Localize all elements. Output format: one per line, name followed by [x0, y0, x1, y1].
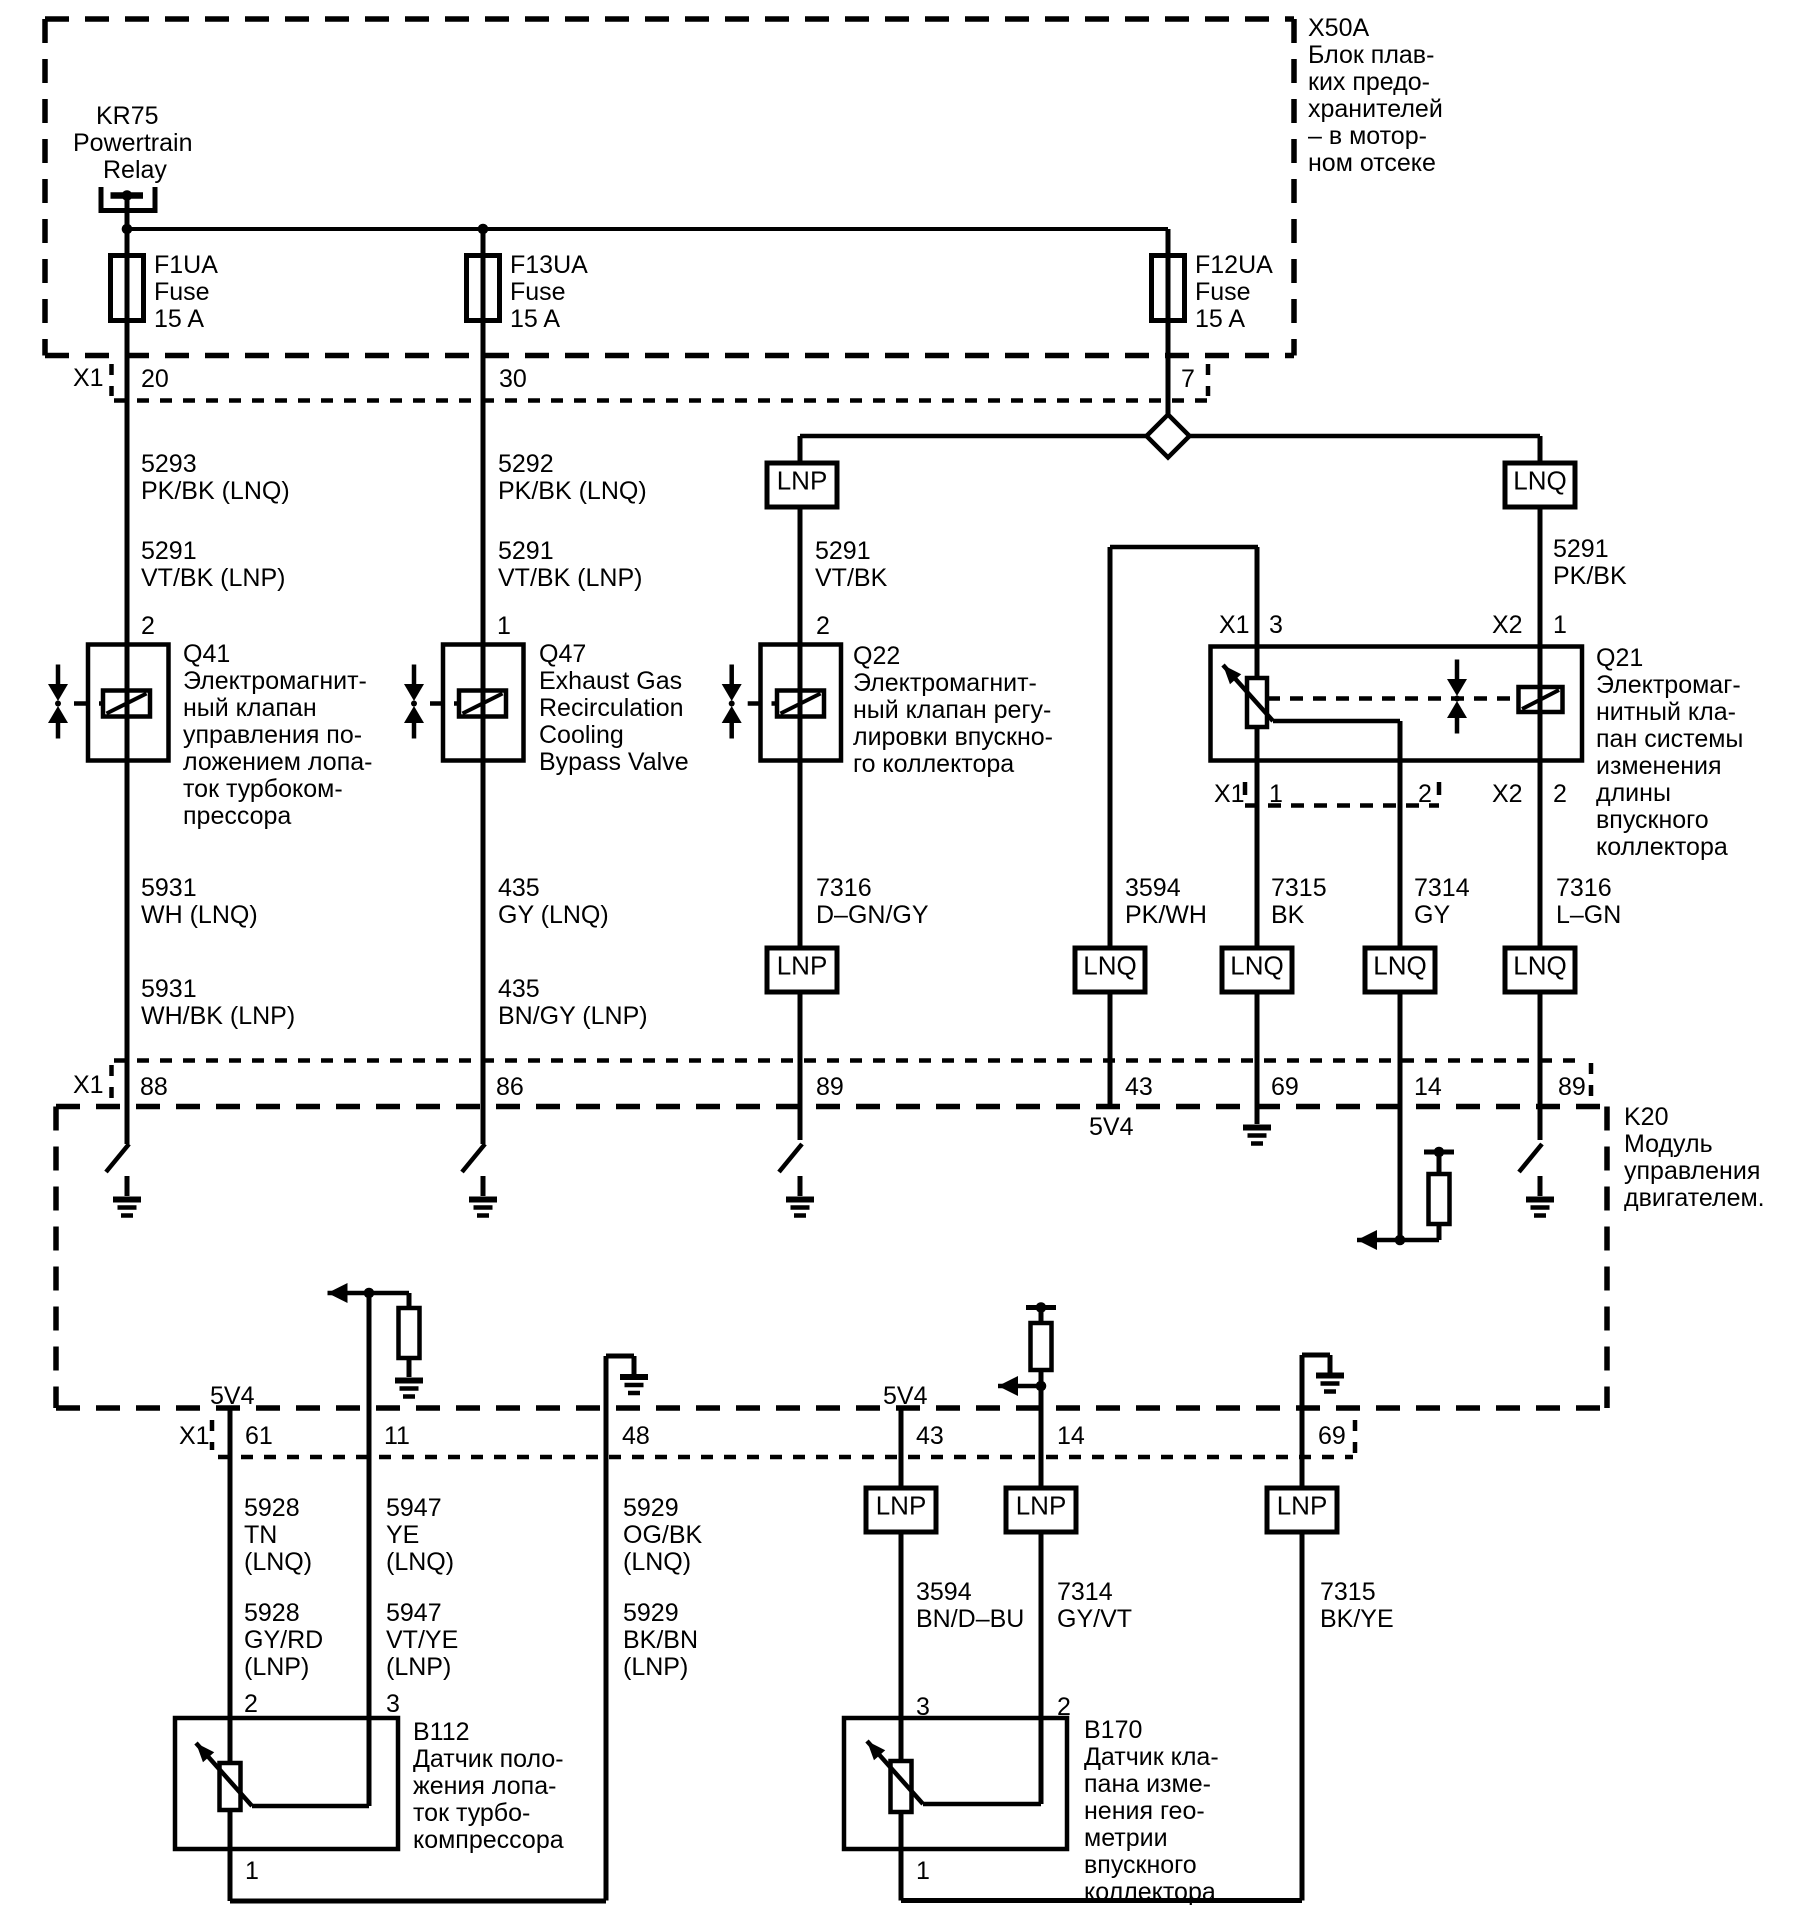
svg-text:X2: X2 — [1492, 611, 1523, 639]
svg-text:69: 69 — [1318, 1422, 1346, 1450]
svg-text:5293: 5293 — [141, 450, 197, 478]
svg-text:GY (LNQ): GY (LNQ) — [498, 901, 609, 929]
svg-text:5931: 5931 — [141, 874, 197, 902]
svg-text:PK/BK (LNQ): PK/BK (LNQ) — [498, 477, 647, 505]
svg-text:Q47: Q47 — [539, 640, 586, 668]
svg-text:5928: 5928 — [244, 1599, 300, 1627]
svg-text:длины: длины — [1596, 779, 1671, 807]
svg-text:KR75: KR75 — [96, 102, 159, 130]
svg-text:изменения: изменения — [1596, 752, 1722, 780]
svg-text:15 A: 15 A — [510, 305, 560, 333]
svg-text:LNP: LNP — [777, 951, 828, 981]
svg-text:BN/D–BU: BN/D–BU — [916, 1605, 1024, 1633]
svg-text:43: 43 — [916, 1422, 944, 1450]
svg-text:LNQ: LNQ — [1513, 951, 1566, 981]
svg-text:VT/BK: VT/BK — [815, 564, 888, 592]
svg-text:5V4: 5V4 — [210, 1382, 255, 1410]
svg-text:5291: 5291 — [1553, 535, 1609, 563]
svg-text:X1: X1 — [73, 364, 104, 392]
svg-text:F1UA: F1UA — [154, 251, 218, 279]
svg-text:PK/BK (LNQ): PK/BK (LNQ) — [141, 477, 290, 505]
svg-text:VT/BK (LNP): VT/BK (LNP) — [141, 564, 285, 592]
svg-text:5291: 5291 — [498, 537, 554, 565]
svg-text:15 A: 15 A — [1195, 305, 1245, 333]
svg-text:D–GN/GY: D–GN/GY — [816, 901, 929, 929]
svg-text:5292: 5292 — [498, 450, 554, 478]
svg-text:двигателем.: двигателем. — [1624, 1184, 1765, 1212]
svg-text:7316: 7316 — [816, 874, 872, 902]
svg-text:1: 1 — [245, 1857, 259, 1885]
svg-text:F13UA: F13UA — [510, 251, 588, 279]
svg-text:5V4: 5V4 — [883, 1382, 928, 1410]
svg-text:ких предо-: ких предо- — [1308, 68, 1430, 96]
svg-text:48: 48 — [622, 1422, 650, 1450]
svg-text:Relay: Relay — [103, 156, 167, 184]
svg-text:2: 2 — [141, 612, 155, 640]
svg-text:LNP: LNP — [777, 466, 828, 496]
svg-text:1: 1 — [916, 1857, 930, 1885]
svg-text:L–GN: L–GN — [1556, 901, 1621, 929]
svg-text:VT/BK (LNP): VT/BK (LNP) — [498, 564, 642, 592]
svg-text:K20: K20 — [1624, 1103, 1668, 1131]
svg-text:3: 3 — [1269, 611, 1283, 639]
svg-text:WH/BK (LNP): WH/BK (LNP) — [141, 1002, 295, 1030]
svg-text:(LNQ): (LNQ) — [623, 1548, 691, 1576]
svg-text:метрии: метрии — [1084, 1824, 1168, 1852]
svg-text:B112: B112 — [413, 1718, 470, 1746]
svg-text:ложением лопа-: ложением лопа- — [183, 748, 372, 776]
svg-text:Блок плав-: Блок плав- — [1308, 41, 1434, 69]
svg-text:7: 7 — [1181, 365, 1195, 393]
svg-text:Датчик поло-: Датчик поло- — [413, 1745, 564, 1773]
svg-text:BK/BN: BK/BN — [623, 1626, 698, 1654]
svg-text:435: 435 — [498, 874, 540, 902]
svg-text:5V4: 5V4 — [1089, 1113, 1134, 1141]
svg-text:5947: 5947 — [386, 1599, 442, 1627]
svg-text:WH (LNQ): WH (LNQ) — [141, 901, 258, 929]
svg-text:7314: 7314 — [1057, 1578, 1113, 1606]
svg-text:LNQ: LNQ — [1083, 951, 1136, 981]
svg-text:LNP: LNP — [1016, 1491, 1067, 1521]
svg-text:прессора: прессора — [183, 802, 291, 830]
svg-text:BK/YE: BK/YE — [1320, 1605, 1394, 1633]
svg-text:1: 1 — [1553, 611, 1567, 639]
svg-text:5929: 5929 — [623, 1599, 679, 1627]
svg-text:LNQ: LNQ — [1513, 466, 1566, 496]
svg-text:жения лопа-: жения лопа- — [413, 1772, 556, 1800]
svg-text:ток турбо-: ток турбо- — [413, 1799, 530, 1827]
svg-text:2: 2 — [1553, 780, 1567, 808]
svg-text:Датчик кла-: Датчик кла- — [1084, 1743, 1219, 1771]
svg-text:Q21: Q21 — [1596, 644, 1643, 672]
svg-text:LNQ: LNQ — [1230, 951, 1283, 981]
svg-text:61: 61 — [245, 1422, 273, 1450]
svg-text:X50A: X50A — [1308, 14, 1369, 42]
svg-text:X1: X1 — [1219, 611, 1250, 639]
svg-text:20: 20 — [141, 365, 169, 393]
svg-text:7315: 7315 — [1320, 1578, 1376, 1606]
svg-text:1: 1 — [497, 612, 511, 640]
svg-text:X2: X2 — [1492, 780, 1523, 808]
svg-text:2: 2 — [244, 1690, 258, 1718]
svg-text:TN: TN — [244, 1521, 277, 1549]
svg-text:OG/BK: OG/BK — [623, 1521, 703, 1549]
svg-text:5291: 5291 — [815, 537, 871, 565]
svg-text:компрессора: компрессора — [413, 1826, 564, 1854]
svg-text:лировки впускно-: лировки впускно- — [853, 723, 1053, 751]
svg-text:2: 2 — [816, 612, 830, 640]
svg-text:7315: 7315 — [1271, 874, 1327, 902]
svg-text:3594: 3594 — [916, 1578, 972, 1606]
svg-text:15 A: 15 A — [154, 305, 204, 333]
svg-text:Электромагнит-: Электромагнит- — [183, 667, 367, 695]
svg-text:впускного: впускного — [1084, 1851, 1197, 1879]
svg-text:– в мотор-: – в мотор- — [1308, 122, 1427, 150]
svg-text:435: 435 — [498, 975, 540, 1003]
svg-text:GY/VT: GY/VT — [1057, 1605, 1132, 1633]
svg-text:43: 43 — [1125, 1073, 1153, 1101]
svg-text:ток турбоком-: ток турбоком- — [183, 775, 343, 803]
svg-text:(LNQ): (LNQ) — [244, 1548, 312, 1576]
svg-text:Электромаг-: Электромаг- — [1596, 671, 1741, 699]
svg-text:Fuse: Fuse — [510, 278, 566, 306]
svg-text:89: 89 — [1558, 1073, 1586, 1101]
svg-text:ный клапан: ный клапан — [183, 694, 317, 722]
svg-text:88: 88 — [140, 1073, 168, 1101]
svg-text:B170: B170 — [1084, 1716, 1142, 1744]
svg-text:Q22: Q22 — [853, 642, 900, 670]
svg-text:GY/RD: GY/RD — [244, 1626, 323, 1654]
svg-text:X1: X1 — [179, 1422, 210, 1450]
svg-text:PK/WH: PK/WH — [1125, 901, 1207, 929]
svg-text:7316: 7316 — [1556, 874, 1612, 902]
svg-text:5929: 5929 — [623, 1494, 679, 1522]
svg-text:5928: 5928 — [244, 1494, 300, 1522]
svg-text:BN/GY (LNP): BN/GY (LNP) — [498, 1002, 648, 1030]
svg-text:89: 89 — [816, 1073, 844, 1101]
svg-text:пана изме-: пана изме- — [1084, 1770, 1211, 1798]
svg-text:F12UA: F12UA — [1195, 251, 1273, 279]
svg-text:(LNP): (LNP) — [623, 1653, 688, 1681]
svg-text:го коллектора: го коллектора — [853, 750, 1014, 778]
svg-text:5291: 5291 — [141, 537, 197, 565]
svg-text:LNQ: LNQ — [1373, 951, 1426, 981]
svg-text:Bypass Valve: Bypass Valve — [539, 748, 689, 776]
svg-text:ный клапан регу-: ный клапан регу- — [853, 696, 1051, 724]
svg-text:Электромагнит-: Электромагнит- — [853, 669, 1037, 697]
svg-text:Fuse: Fuse — [154, 278, 210, 306]
svg-text:Exhaust Gas: Exhaust Gas — [539, 667, 682, 695]
svg-text:BK: BK — [1271, 901, 1305, 929]
svg-text:5947: 5947 — [386, 1494, 442, 1522]
svg-text:хранителей: хранителей — [1308, 95, 1443, 123]
svg-text:Q41: Q41 — [183, 640, 230, 668]
svg-text:нения гео-: нения гео- — [1084, 1797, 1205, 1825]
svg-text:(LNP): (LNP) — [386, 1653, 451, 1681]
svg-text:X1: X1 — [1214, 780, 1245, 808]
svg-text:14: 14 — [1414, 1073, 1442, 1101]
svg-text:5931: 5931 — [141, 975, 197, 1003]
svg-text:пан системы: пан системы — [1596, 725, 1743, 753]
svg-text:11: 11 — [384, 1422, 410, 1450]
svg-text:86: 86 — [496, 1073, 524, 1101]
svg-text:управления по-: управления по- — [183, 721, 362, 749]
svg-text:(LNP): (LNP) — [244, 1653, 309, 1681]
svg-text:Fuse: Fuse — [1195, 278, 1251, 306]
svg-text:GY: GY — [1414, 901, 1450, 929]
svg-text:69: 69 — [1271, 1073, 1299, 1101]
svg-text:YE: YE — [386, 1521, 419, 1549]
svg-text:коллектора: коллектора — [1596, 833, 1728, 861]
svg-text:3594: 3594 — [1125, 874, 1181, 902]
svg-text:14: 14 — [1057, 1422, 1085, 1450]
svg-text:X1: X1 — [73, 1071, 104, 1099]
svg-text:нитный кла-: нитный кла- — [1596, 698, 1736, 726]
svg-text:Powertrain: Powertrain — [73, 129, 193, 157]
svg-text:Cooling: Cooling — [539, 721, 624, 749]
svg-text:управления: управления — [1624, 1157, 1760, 1185]
svg-text:PK/BK: PK/BK — [1553, 562, 1627, 590]
svg-text:(LNQ): (LNQ) — [386, 1548, 454, 1576]
svg-text:LNP: LNP — [1277, 1491, 1328, 1521]
svg-text:3: 3 — [386, 1690, 400, 1718]
svg-text:30: 30 — [499, 365, 527, 393]
svg-text:Модуль: Модуль — [1624, 1130, 1713, 1158]
svg-text:LNP: LNP — [876, 1491, 927, 1521]
svg-text:ном отсеке: ном отсеке — [1308, 149, 1436, 177]
svg-text:впускного: впускного — [1596, 806, 1709, 834]
svg-text:Recirculation: Recirculation — [539, 694, 684, 722]
svg-text:7314: 7314 — [1414, 874, 1470, 902]
svg-text:VT/YE: VT/YE — [386, 1626, 458, 1654]
